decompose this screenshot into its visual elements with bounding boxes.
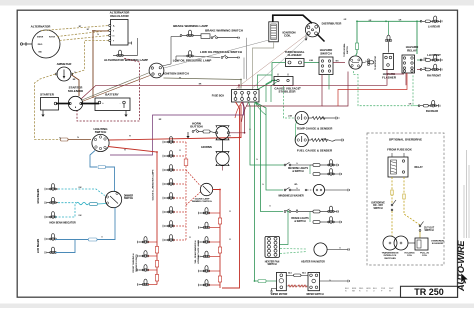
svg-text:SWITCH: SWITCH <box>373 208 382 210</box>
alternator <box>20 24 60 58</box>
gauge illum lamp y=240 <box>163 235 186 242</box>
wire warn switches down <box>246 38 248 80</box>
tail lamps red bus <box>213 190 220 289</box>
svg-text:BUTTON: BUTTON <box>190 125 202 129</box>
gauge illum lamp y=184 <box>163 179 186 186</box>
svg-text:WINDSHIELD WASHER: WINDSHIELD WASHER <box>278 195 304 198</box>
plug leads (thin gray) <box>164 40 269 68</box>
svg-text:FLASHER: FLASHER <box>288 53 303 57</box>
hi-tension lead coil to distributer (thick) <box>273 15 312 23</box>
svg-text:STARTER: STARTER <box>40 92 55 96</box>
wire flasher to hazard switch <box>304 62 319 64</box>
LH rear lamp <box>420 16 442 29</box>
wire fuse to washer (green) <box>255 102 283 190</box>
brake warning lamp <box>173 24 208 37</box>
wire solenoid to fuse (maroon) <box>81 85 239 99</box>
heater fan switch <box>265 236 280 266</box>
svg-text:SWITCHES: SWITCHES <box>384 258 396 260</box>
wire hazard sw to ts switch <box>333 62 345 64</box>
svg-text:AUTO-WIRE: AUTO-WIRE <box>456 240 466 292</box>
svg-text:TRANSMISSION: TRANSMISSION <box>382 252 399 255</box>
svg-text:HEATER FAN MOTOR: HEATER FAN MOTOR <box>301 260 325 263</box>
high beam lamp y=202.7 <box>45 197 58 204</box>
svg-text:IGNITION SWITCH: IGNITION SWITCH <box>163 72 188 76</box>
dimmer switch <box>105 191 133 207</box>
svg-text:FRONT PARKING &: FRONT PARKING & <box>132 253 135 273</box>
svg-text:LOW BEAMS: LOW BEAMS <box>37 238 40 253</box>
svg-text:WIPER SWITCH: WIPER SWITCH <box>306 294 324 296</box>
svg-text:DIMMER: DIMMER <box>124 195 134 197</box>
wire lighting sw to parking lamps (red) <box>108 147 157 243</box>
fuel gauge & sender <box>295 133 344 152</box>
fuse box fanout crossings <box>235 102 242 118</box>
svg-text:B+: B+ <box>113 26 115 28</box>
ts indicator lamps <box>385 21 392 52</box>
battery <box>95 92 130 110</box>
svg-text:HIGH BEAM INDICATOR: HIGH BEAM INDICATOR <box>49 221 76 224</box>
reverse lights & switch <box>284 160 341 176</box>
parking lamp y=270 <box>138 265 158 272</box>
wire alternator to regulator (tan dashed) <box>41 26 109 41</box>
svg-text:SOLENOID: SOLENOID <box>432 243 444 245</box>
wire horn1 to horn2 <box>222 140 224 152</box>
ground under starter <box>42 111 44 115</box>
svg-text:TEMP GAUGE & SENDER: TEMP GAUGE & SENDER <box>297 126 334 130</box>
ignition switch <box>149 63 189 78</box>
svg-text:COIL: COIL <box>422 255 428 257</box>
svg-text:SWITCH: SWITCH <box>424 230 433 232</box>
gauge voltage stabilizer <box>274 74 300 94</box>
svg-text:ALTERNATOR: ALTERNATOR <box>31 24 52 28</box>
wire solenoid to warn lamp (maroon dashed) <box>77 58 140 121</box>
green link brake row to heater switch <box>280 212 289 245</box>
tail lamp y=242 <box>199 237 221 244</box>
svg-text:BATTERY: BATTERY <box>105 92 119 96</box>
wire stabilizer to gauges (lt green dashed) <box>284 86 296 119</box>
svg-text:LH REAR: LH REAR <box>428 25 440 29</box>
LH front lamp <box>417 53 442 62</box>
svg-text:HIGH BEAMS: HIGH BEAMS <box>37 188 40 203</box>
wire fuse to brake switch (green) <box>255 102 283 212</box>
blue wires low beams <box>97 208 116 240</box>
brake lights & switch <box>284 206 341 223</box>
svg-text:SWITCH: SWITCH <box>267 264 276 266</box>
svg-text:UW: UW <box>79 215 82 217</box>
svg-text:AMMETER: AMMETER <box>57 62 73 66</box>
svg-text:LH FRONT: LH FRONT <box>427 53 441 57</box>
wire fuse to reverse switch (green) <box>249 102 285 165</box>
svg-text:STABILIZER: STABILIZER <box>278 90 296 94</box>
wire fuse to horns (purple) <box>229 102 244 133</box>
svg-text:F: F <box>113 41 114 43</box>
svg-text:SWITCH: SWITCH <box>95 130 107 134</box>
low oil pressure switch <box>200 50 242 59</box>
svg-text:BRAKE WARNING LAMP: BRAKE WARNING LAMP <box>173 24 208 28</box>
svg-text:GW: GW <box>423 58 426 60</box>
turn signal switch <box>343 42 377 70</box>
RH rear lamp <box>418 100 440 113</box>
wiper switch <box>306 272 349 296</box>
cut-out switch <box>419 222 435 239</box>
wire ignition coil feed (white) <box>253 42 274 90</box>
tail lamp y=271 <box>199 266 221 273</box>
hazard flasher <box>382 54 397 80</box>
temp gauge & sender <box>295 111 339 130</box>
svg-text:SOLENOID: SOLENOID <box>68 89 83 93</box>
svg-text:TR 250: TR 250 <box>414 287 444 297</box>
svg-text:ON - OFF: ON - OFF <box>373 205 384 207</box>
svg-text:W: W <box>389 291 391 293</box>
starter solenoid <box>68 86 83 111</box>
horn 2 <box>201 145 229 166</box>
parking lamp y=242 <box>138 237 158 244</box>
horn 1 <box>216 126 230 140</box>
horn button <box>186 121 215 138</box>
wire fuse to wiper + heater (green) <box>255 102 259 281</box>
svg-text:TAIL, REAR MARKER &: TAIL, REAR MARKER & <box>194 240 197 264</box>
wire solenoid to ignition switch (white/brown thin) <box>82 73 150 101</box>
overdrive solenoid <box>404 238 444 257</box>
svg-text:COIL: COIL <box>284 34 291 38</box>
svg-text:BRAKE WARNING SWITCH: BRAKE WARNING SWITCH <box>205 29 243 33</box>
wire regulator F to ammeter (tan dashed) <box>72 41 109 75</box>
turn signal flasher <box>284 50 304 67</box>
optional overdrive dashed box <box>367 133 444 265</box>
gauge illum lamp y=226 <box>163 221 186 228</box>
svg-text:FROM FUSE BOX: FROM FUSE BOX <box>387 148 412 152</box>
low beam lamp y=239 <box>45 234 56 241</box>
wire flasher to stabilizer junction (green) <box>272 63 286 81</box>
gauge illum lamp y=212 <box>163 207 186 214</box>
svg-text:TS INDICATOR: TS INDICATOR <box>374 55 377 70</box>
svg-text:FLASHER: FLASHER <box>382 75 397 79</box>
overdrive on-off switch <box>371 200 396 211</box>
alternator warning lamp <box>104 38 148 62</box>
gauge illum lamp y=156 <box>163 151 186 158</box>
svg-text:& SWITCH: & SWITCH <box>294 221 306 223</box>
svg-text:SWITCH: SWITCH <box>124 198 133 200</box>
svg-text:GAUGE ILLUMINATION LAMPS: GAUGE ILLUMINATION LAMPS <box>152 169 155 200</box>
wire ammeter to solenoid (brown) <box>72 75 79 96</box>
ammeter <box>55 62 72 81</box>
wire ammeter to lighting switch (tan dashed) <box>35 74 92 141</box>
wire ts switch to lamps (green top run) <box>356 21 418 56</box>
windshield washer <box>278 184 349 198</box>
gauge illum lamp y=142 <box>163 137 186 144</box>
svg-text:RELAY: RELAY <box>407 49 417 53</box>
mouse cursor <box>461 273 468 284</box>
maroon bus hazard to fuse <box>241 70 388 86</box>
high beam indicator <box>45 203 76 225</box>
svg-text:GAUGE LAMP: GAUGE LAMP <box>195 197 210 200</box>
svg-text:COIL: COIL <box>407 255 413 257</box>
wire lighting sw to hazard (red) <box>109 105 241 140</box>
ts indicator lamp <box>367 59 374 66</box>
RH front lamp <box>417 64 442 77</box>
lighting switch <box>92 127 109 152</box>
dashed feeds to dimmer control <box>186 170 201 186</box>
tail lamp y=227.5 <box>199 222 221 229</box>
svg-text:SWITCH: SWITCH <box>320 52 332 56</box>
overdrive wires (yellow dashed) <box>391 177 393 203</box>
green dashed ts switch to RH rear <box>354 71 414 106</box>
svg-text:DIMMER CONTROL: DIMMER CONTROL <box>192 201 213 203</box>
svg-text:OPTIONAL OVERDRIVE: OPTIONAL OVERDRIVE <box>389 137 422 141</box>
wiper motor <box>258 272 288 296</box>
thick battery cables <box>56 103 70 105</box>
svg-text:BRAKE LIGHTS: BRAKE LIGHTS <box>291 217 309 220</box>
svg-text:RH REAR: RH REAR <box>426 109 438 113</box>
svg-text:DISTRIBUTER: DISTRIBUTER <box>322 21 343 25</box>
low oil pressure lamp <box>173 51 220 63</box>
svg-text:RELAY: RELAY <box>415 166 424 169</box>
svg-text:ROTOR: ROTOR <box>49 37 56 39</box>
gauge illum lamp y=198 <box>163 193 186 200</box>
high beam lamp y=189 <box>45 184 58 191</box>
transmission interlock switches <box>382 236 408 260</box>
svg-text:WIPER MOTOR: WIPER MOTOR <box>271 294 288 296</box>
tail lamp y=285 <box>199 280 221 287</box>
tail lamp y=256.5 <box>199 251 221 258</box>
wire regulator to battery (brown) <box>93 31 109 98</box>
wire lighting sw to dimmer (blue) <box>90 151 97 168</box>
low beam lamp y=252.5 <box>45 247 56 254</box>
svg-text:& SWITCH: & SWITCH <box>292 171 304 173</box>
svg-text:FUEL GAUGE & SENDER: FUEL GAUGE & SENDER <box>297 148 333 152</box>
overdrive relay <box>388 153 423 177</box>
wiper motor-switch links <box>286 273 308 288</box>
alternator regulator <box>109 11 132 45</box>
gauge illum lamp y=170 <box>163 165 186 172</box>
wire fuse to tail lamps (red vertical) <box>222 102 240 288</box>
gauge lamp dimmer control <box>192 183 213 203</box>
svg-text:SWITCH: SWITCH <box>347 46 349 54</box>
TR 250 title box <box>401 286 458 297</box>
svg-text:LOW OIL PRESSURE SWITCH: LOW OIL PRESSURE SWITCH <box>200 50 242 54</box>
ground under battery <box>124 104 128 117</box>
heater fan motor <box>280 243 350 263</box>
starter <box>40 92 58 110</box>
wire fuse to lighting switch (purple) <box>110 102 244 155</box>
svg-text:HORNS: HORNS <box>201 145 212 149</box>
svg-text:CUT-OUT: CUT-OUT <box>424 227 435 229</box>
svg-text:FUSE BOX: FUSE BOX <box>212 95 225 98</box>
hazard relay <box>402 45 418 73</box>
svg-text:OVERDRIVE: OVERDRIVE <box>371 202 385 204</box>
svg-text:W: W <box>179 78 181 80</box>
wire warn lamps to ignition sw <box>171 36 181 38</box>
svg-text:UW: UW <box>79 187 82 189</box>
svg-text:HEATER FAN: HEATER FAN <box>265 260 280 263</box>
distributer <box>305 21 343 40</box>
svg-text:REVERSE LIGHTS: REVERSE LIGHTS <box>288 168 309 170</box>
svg-text:TURN SIGNAL: TURN SIGNAL <box>343 42 346 56</box>
fuse box <box>212 90 259 103</box>
brake warning switch <box>201 29 243 39</box>
hazard switch <box>319 48 333 74</box>
wire ignition switch to fuse box (white) <box>164 78 242 89</box>
tail lamp y=213 <box>199 208 221 215</box>
parking lamp y=284.5 <box>138 279 158 286</box>
svg-text:RH FRONT: RH FRONT <box>427 74 441 78</box>
legend tiny text <box>345 288 394 293</box>
svg-text:REGULATOR: REGULATOR <box>110 14 129 18</box>
blue dashed wires to dimmer <box>58 189 105 196</box>
red link relay to fusebus <box>338 73 407 106</box>
parking lamp y=256 <box>138 251 158 258</box>
tiny wire labels <box>59 19 427 282</box>
AUTO-WIRE sidebar <box>456 150 469 292</box>
ignition coil <box>269 22 296 42</box>
green drop from hazard switch <box>328 75 330 90</box>
